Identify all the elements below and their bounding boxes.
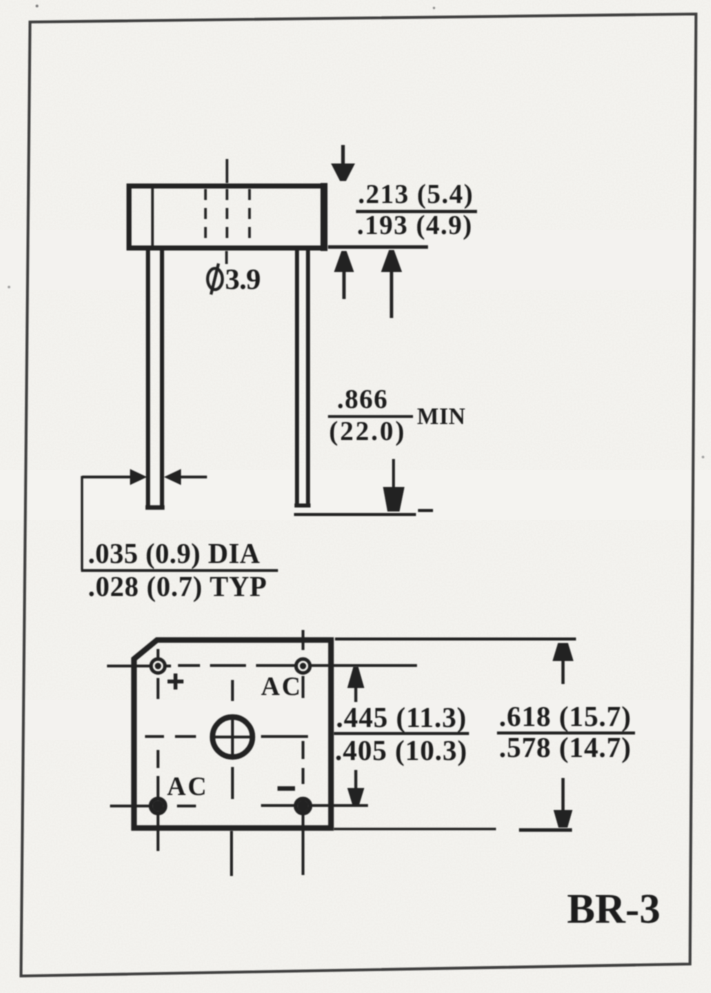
hole spacing dimension arrow (down) <box>347 770 364 806</box>
body height dimension arrow (down, top) <box>331 145 355 181</box>
svg-text:AC: AC <box>167 772 209 801</box>
svg-text:.866: .866 <box>337 384 388 414</box>
lead length dimension arrow (up) <box>381 250 402 318</box>
svg-text:(22.0): (22.0) <box>329 416 406 446</box>
body height dimension arrow (up, bottom) <box>334 251 354 299</box>
svg-text:.445 (11.3): .445 (11.3) <box>336 703 467 734</box>
svg-text:BR-3: BR-3 <box>567 887 660 933</box>
extension line from body bottom <box>328 245 428 249</box>
svg-text:.213 (5.4): .213 (5.4) <box>358 179 474 209</box>
body size dimension arrow (down) <box>554 778 573 828</box>
pin - (bottom-right) <box>296 799 311 814</box>
left lead <box>146 250 165 508</box>
centerline: top pin row <box>107 664 417 667</box>
centerline: bottom pin row <box>110 804 368 807</box>
svg-text:.578 (14.7): .578 (14.7) <box>499 733 631 764</box>
polarity mark + <box>168 674 184 690</box>
polarity mark - <box>278 786 296 791</box>
lead length dimension arrow (down) <box>383 459 405 512</box>
pin AC (bottom-left) <box>151 799 166 814</box>
centerlines: vertical through mounting hole <box>232 680 233 876</box>
body size dimension arrow (up) <box>553 643 574 684</box>
leader line for lead diameter <box>81 476 83 570</box>
centerlines: vertical through pins <box>158 630 303 875</box>
mounting hole center <box>213 717 253 757</box>
pin + (top-left) <box>151 659 165 673</box>
body size dimension extension line (top) <box>335 638 576 641</box>
lead diameter arrows (horizontal pair at left lead) <box>82 469 207 485</box>
bottom view body outline with chamfer <box>134 640 331 828</box>
svg-text:.028 (0.7) TYP: .028 (0.7) TYP <box>88 572 267 603</box>
svg-text:.193 (4.9): .193 (4.9) <box>357 210 473 240</box>
svg-text:.618 (15.7): .618 (15.7) <box>499 702 631 733</box>
hidden hole dashed lines <box>206 189 250 246</box>
right lead <box>295 250 311 506</box>
svg-text:MIN: MIN <box>417 404 466 429</box>
svg-text:3.9: 3.9 <box>225 264 260 296</box>
centerlines: horizontal through mounting hole <box>145 735 308 738</box>
hole centerline <box>225 159 228 264</box>
body size dimension extension line (bottom) <box>334 828 496 831</box>
svg-text:.405 (10.3): .405 (10.3) <box>335 736 467 767</box>
lead end extension line <box>294 513 416 516</box>
svg-text:AC: AC <box>261 672 303 701</box>
hole spacing dimension arrow (up) <box>347 667 364 702</box>
hole diameter label φ3.9 <box>208 268 223 289</box>
component body (side view) <box>129 183 324 251</box>
pin AC (top-right) <box>296 659 310 673</box>
svg-text:.035 (0.9) DIA: .035 (0.9) DIA <box>88 539 261 570</box>
